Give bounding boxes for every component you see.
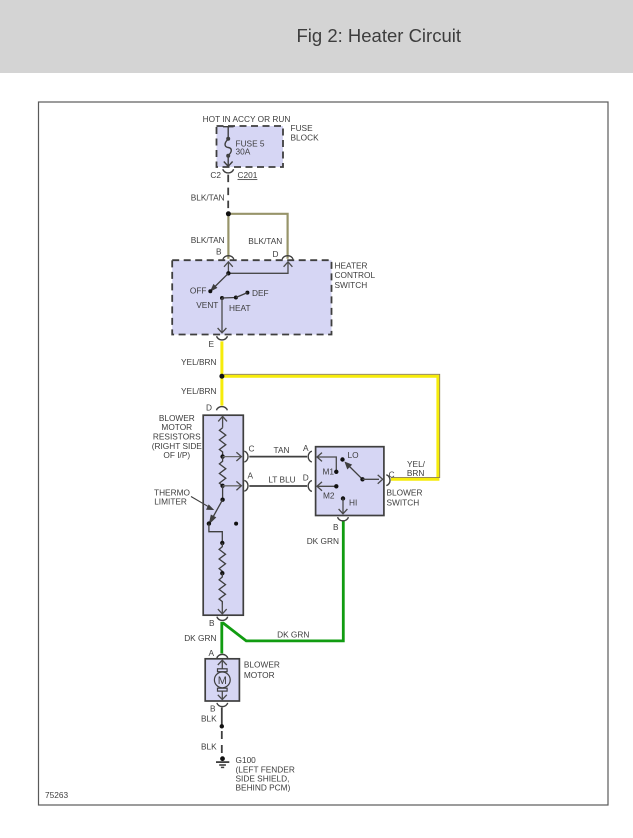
- dot inside resistor box: [234, 522, 238, 526]
- wire BLK dashed: [221, 731, 223, 756]
- svg-text:A: A: [303, 443, 309, 453]
- svg-text:SWITCH: SWITCH: [335, 280, 368, 290]
- contact HI: [341, 496, 345, 500]
- wire fuse to pin with down arrow: [227, 156, 229, 166]
- pin A arrow and M1: [318, 457, 337, 472]
- resistor R1: [219, 428, 225, 457]
- connector cup switch B: [338, 517, 349, 521]
- svg-text:M2: M2: [323, 491, 335, 501]
- wire VENT to pin E with down arrow: [221, 298, 223, 333]
- wire to thermo limiter: [222, 486, 224, 500]
- connector cup resistor D: [217, 407, 228, 411]
- junction dot: [220, 724, 224, 728]
- svg-text:HEAT: HEAT: [229, 303, 251, 313]
- svg-text:BLK/TAN: BLK/TAN: [191, 193, 225, 203]
- svg-text:M1: M1: [322, 467, 334, 477]
- svg-text:YEL/BRN: YEL/BRN: [181, 386, 217, 396]
- svg-text:BLK/TAN: BLK/TAN: [191, 235, 225, 245]
- svg-text:LT BLU: LT BLU: [268, 474, 295, 484]
- connector cup switch A: [308, 451, 312, 462]
- mid dot: [220, 571, 224, 575]
- svg-text:MOTOR: MOTOR: [244, 670, 275, 680]
- diagram outer border frame: [39, 102, 609, 805]
- connector cup pin D: [282, 256, 293, 260]
- header band: [0, 0, 633, 73]
- svg-text:BLOCK: BLOCK: [291, 132, 320, 142]
- svg-text:BEHIND PCM): BEHIND PCM): [236, 782, 291, 792]
- hairline on yellow lower run: [391, 476, 440, 478]
- pin B exit arrow: [221, 691, 223, 699]
- contact VENT: [220, 296, 224, 300]
- svg-text:Fig 2: Heater Circuit: Fig 2: Heater Circuit: [297, 25, 462, 46]
- wire TAN: [249, 456, 307, 458]
- svg-text:D: D: [303, 472, 309, 482]
- svg-text:D: D: [273, 249, 279, 259]
- blower motor box: [205, 659, 239, 701]
- svg-text:A: A: [208, 648, 214, 658]
- wire dk grn branch to blower switch B: [223, 521, 344, 641]
- svg-text:BRN: BRN: [407, 468, 425, 478]
- connector cup resistor B: [217, 617, 228, 621]
- connector cup motor B: [217, 703, 228, 707]
- svg-text:C201: C201: [238, 170, 258, 180]
- wire BLK/TAN dashed segment: [227, 175, 229, 212]
- fuse block box: [217, 126, 284, 167]
- pin D entry arrow: [228, 262, 288, 274]
- pin B exit arrow: [221, 605, 223, 614]
- node junction dot: [226, 211, 231, 216]
- pin D arrow and M2: [318, 485, 337, 487]
- node A tap dot: [220, 484, 224, 488]
- connector cup resistor C: [244, 451, 248, 462]
- svg-text:B: B: [216, 247, 222, 257]
- svg-text:C: C: [389, 469, 395, 479]
- svg-text:HOT IN ACCY OR RUN: HOT IN ACCY OR RUN: [203, 114, 291, 124]
- wire HI to pin B with down arrow: [342, 499, 344, 514]
- svg-text:C: C: [249, 444, 255, 454]
- svg-text:SWITCH: SWITCH: [387, 498, 420, 508]
- svg-text:DEF: DEF: [252, 288, 269, 298]
- pin B entry arrow: [227, 262, 229, 274]
- svg-text:M: M: [218, 675, 227, 687]
- svg-text:G100: G100: [236, 755, 257, 765]
- connector C2 / C201 cup: [223, 169, 234, 173]
- connector cup switch D: [308, 481, 312, 492]
- svg-text:LO: LO: [348, 450, 360, 460]
- wire into fuse: [227, 127, 229, 139]
- terminal tick at fuse block top: [223, 126, 234, 128]
- connector cup motor A: [217, 654, 228, 658]
- wire tan vertical to switch pin B: [227, 214, 229, 259]
- contact LO: [340, 457, 344, 461]
- svg-text:BLK: BLK: [201, 742, 217, 752]
- wire dk grn resistor B to motor A: [220, 622, 223, 654]
- svg-text:B: B: [333, 522, 339, 532]
- svg-text:CONTROL: CONTROL: [335, 270, 376, 280]
- thermo limiter pointer arrow: [191, 497, 210, 508]
- switch wiper to LO: [348, 465, 363, 479]
- wire yellow branch to blower switch C: [222, 376, 438, 479]
- svg-text:C2: C2: [210, 170, 221, 180]
- junction dot yellow: [219, 374, 224, 379]
- pin D entry arrow: [222, 416, 224, 427]
- wire tap to pin C with right arrow: [223, 456, 241, 458]
- connector cup pin E: [217, 336, 228, 340]
- thermo limiter element: [211, 500, 223, 522]
- svg-text:E: E: [208, 339, 214, 349]
- motor M1 symbol: [218, 669, 228, 672]
- svg-text:BLOWER: BLOWER: [244, 659, 280, 669]
- svg-text:A: A: [248, 471, 254, 481]
- switch wiper arm to OFF: [214, 273, 229, 288]
- connector cup pin B: [223, 256, 234, 260]
- wire tan branch to pin D: [228, 214, 287, 259]
- svg-text:BLK: BLK: [201, 714, 217, 724]
- svg-text:75263: 75263: [45, 790, 68, 800]
- svg-text:DK GRN: DK GRN: [184, 633, 216, 643]
- resistor R2: [219, 457, 225, 486]
- svg-text:OF I/P): OF I/P): [163, 450, 190, 460]
- heater control switch box: [172, 260, 331, 334]
- fuse F5 element: [226, 137, 230, 141]
- resistor R3: [219, 543, 225, 573]
- svg-text:BLOWER: BLOWER: [387, 488, 423, 498]
- ground G100: [220, 756, 225, 761]
- pin A entry arrow: [221, 660, 223, 669]
- wire thermo to R3: [209, 524, 222, 543]
- svg-text:LIMITER: LIMITER: [154, 497, 187, 507]
- contact OFF: [208, 289, 212, 293]
- svg-text:OFF: OFF: [190, 286, 207, 296]
- svg-text:HI: HI: [349, 497, 357, 507]
- wire BLK solid: [221, 708, 223, 727]
- svg-text:B: B: [209, 618, 215, 628]
- wiper to pin C arrow: [363, 478, 380, 480]
- svg-text:30A: 30A: [236, 147, 251, 157]
- contact HEAT link: [222, 297, 236, 300]
- wire tap to pin A with right arrow: [223, 485, 241, 487]
- contact DEF: [245, 291, 249, 295]
- svg-text:B: B: [210, 704, 216, 714]
- svg-text:DK GRN: DK GRN: [277, 629, 309, 639]
- svg-text:D: D: [206, 402, 212, 412]
- blower motor resistors box: [203, 415, 243, 615]
- connector cup switch C: [386, 475, 390, 486]
- wire LT BLU: [249, 485, 307, 487]
- svg-text:TAN: TAN: [274, 445, 290, 455]
- wire yellow E down: [220, 341, 223, 405]
- resistor R4: [219, 573, 225, 604]
- node C tap dot: [220, 454, 224, 458]
- switch node dot: [226, 271, 230, 275]
- svg-text:YEL/BRN: YEL/BRN: [181, 357, 217, 367]
- svg-text:VENT: VENT: [196, 300, 218, 310]
- blower switch box: [316, 447, 384, 516]
- connector cup resistor A: [244, 480, 248, 491]
- svg-text:BLK/TAN: BLK/TAN: [248, 236, 282, 246]
- svg-text:HEATER: HEATER: [335, 260, 368, 270]
- svg-text:DK GRN: DK GRN: [307, 536, 339, 546]
